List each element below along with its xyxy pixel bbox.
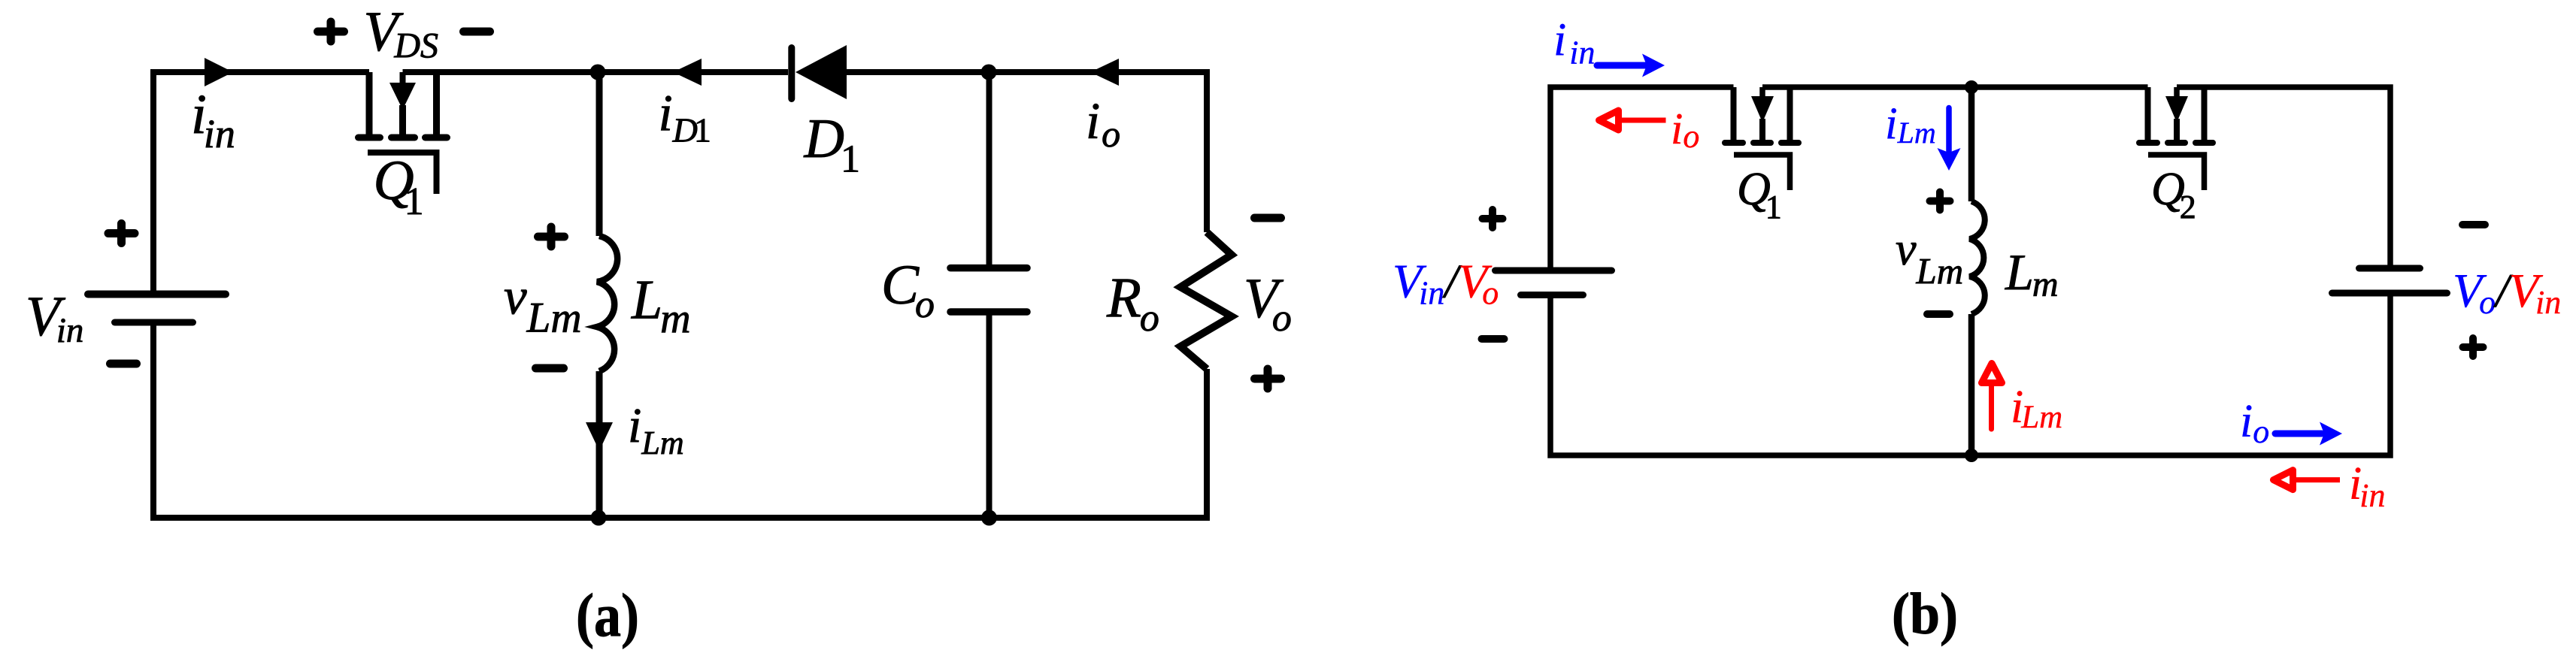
svg-text:Vo/Vin: Vo/Vin (2453, 264, 2561, 321)
node (590, 65, 606, 80)
label + (vLm) (538, 227, 565, 246)
svg-text:Q1: Q1 (374, 150, 424, 223)
transistor Q1 (359, 72, 447, 194)
current arrow i_D1 (673, 59, 702, 86)
svg-text:(a): (a) (576, 581, 639, 649)
label + (Vo/Vin) (2463, 338, 2484, 356)
node (591, 510, 607, 526)
svg-text:Q1: Q1 (1737, 164, 1782, 225)
resistor Ro (1180, 232, 1232, 369)
svg-text:Q2: Q2 (2151, 164, 2196, 225)
label - (vLm) (1927, 310, 1950, 318)
current arrow i_in (205, 58, 233, 86)
current arrow i_o (1090, 59, 1119, 86)
svg-text:Lm: Lm (2005, 243, 2059, 304)
battery Vo/Vin (2332, 268, 2447, 293)
wire (1550, 293, 2390, 455)
svg-text:Vin/Vo: Vin/Vo (1393, 255, 1499, 312)
svg-text:io: io (2240, 396, 2269, 450)
wire (403, 69, 599, 75)
svg-text:vLm: vLm (504, 268, 582, 342)
svg-text:iD1: iD1 (659, 85, 711, 150)
transistor Q2 (2139, 87, 2213, 190)
svg-text:io: io (1086, 92, 1120, 155)
wire (2177, 87, 2390, 268)
current arrow i_Lm (blue) (1938, 108, 1961, 171)
svg-text:Ro: Ro (1106, 267, 1159, 340)
inductor Lm (597, 72, 617, 518)
current arrow i_in (blue) (1597, 54, 1665, 77)
node (981, 510, 997, 526)
svg-text:Vin: Vin (26, 286, 83, 350)
battery Vin (88, 295, 226, 323)
svg-text:Lm: Lm (631, 270, 691, 343)
wire (1762, 84, 1971, 90)
wire (989, 72, 1207, 232)
wire (1971, 84, 2148, 90)
svg-text:(b): (b) (1892, 581, 1958, 646)
wire (1550, 87, 1734, 271)
svg-text:iin: iin (1553, 15, 1595, 71)
label + (Vin/Vo) (1483, 210, 1503, 228)
transistor Q1 (1725, 87, 1799, 190)
node (1965, 80, 1978, 94)
label + (Vin) (108, 224, 135, 243)
current arrow i_in (red) (2274, 470, 2341, 490)
svg-text:iLm: iLm (628, 398, 684, 461)
wire (598, 69, 788, 75)
label + (VDS) (318, 22, 344, 41)
svg-text:VDS: VDS (364, 1, 439, 66)
current arrow i_o (blue) (2275, 422, 2342, 446)
svg-text:iLm: iLm (2011, 382, 2062, 435)
label - (VDS) (464, 28, 490, 36)
label - (vLm) (536, 364, 564, 373)
diode D1 (792, 45, 847, 99)
svg-text:vLm: vLm (1896, 224, 1963, 292)
wire (153, 72, 369, 295)
node (1965, 449, 1978, 462)
label - (Vo) (1255, 214, 1281, 222)
capacitor Co (950, 72, 1027, 518)
label - (Vo/Vin) (2462, 221, 2485, 228)
current arrow i_o (red) (1599, 110, 1666, 130)
svg-text:Co: Co (881, 254, 935, 326)
battery Vin/Vo (1496, 271, 1612, 295)
svg-text:iin: iin (191, 83, 235, 156)
label + (vLm) (1930, 192, 1950, 210)
svg-text:D1: D1 (804, 108, 860, 181)
svg-text:iLm: iLm (1885, 98, 1936, 150)
current arrow i_Lm (586, 422, 613, 451)
svg-text:Vo: Vo (1244, 268, 1292, 340)
current arrow i_Lm (red) (1982, 364, 2002, 430)
label - (Vin/Vo) (1482, 335, 1505, 343)
node (981, 65, 997, 80)
inductor Lm (1970, 87, 1985, 455)
label - (Vin) (111, 360, 137, 368)
label + (Vo) (1255, 369, 1281, 388)
svg-text:io: io (1671, 104, 1699, 155)
wire (153, 322, 1207, 518)
svg-text:iin: iin (2349, 458, 2385, 514)
wire (847, 69, 989, 75)
